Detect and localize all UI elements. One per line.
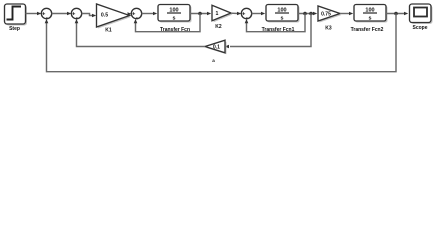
svg-text:1: 1 <box>216 11 219 17</box>
step source block Step <box>5 4 28 26</box>
wire sum1 to sum2 <box>52 12 72 16</box>
junction dot node after Transfer Fcn1 feeding inner loop <box>303 12 307 16</box>
wire sum4 to Transfer Fcn1 <box>252 12 266 16</box>
wire K1 to sum3 <box>127 12 131 16</box>
transfer function block Transfer Fcn2 100/s <box>354 5 388 23</box>
svg-text:K2: K2 <box>215 24 222 30</box>
wire inner loop Transfer Fcn1 back to sum4 <box>245 14 305 32</box>
gain block a value 0.1 pointing left <box>205 40 227 54</box>
svg-text:0.1: 0.1 <box>213 45 220 51</box>
wire gain a output back to sum2 <box>75 19 205 47</box>
junction dot node after Transfer Fcn2 feeding outer loop <box>394 12 398 16</box>
wire K2 to sum4 <box>231 12 241 16</box>
wire outer loop Transfer Fcn2 back to sum1 <box>45 14 396 72</box>
svg-text:K3: K3 <box>325 26 332 32</box>
wire Step to sum1 <box>26 12 42 16</box>
scope block Scope <box>410 4 433 24</box>
svg-text:Scope: Scope <box>412 25 427 31</box>
wire Transfer Fcn2 to Scope <box>386 12 408 16</box>
transfer function block Transfer Fcn1 100/s <box>266 5 300 23</box>
gain block K2 value 1 <box>212 5 233 22</box>
svg-text:Step: Step <box>9 26 20 32</box>
wire from node after Transfer Fcn1 down to gain a <box>225 14 311 49</box>
summing junction sum1 <box>41 8 52 21</box>
transfer function block Transfer Fcn 100/s <box>158 5 192 23</box>
svg-text:s: s <box>281 15 284 21</box>
svg-text:-: - <box>136 15 138 21</box>
wire K3 to Transfer Fcn2 <box>340 12 353 16</box>
summing junction sum2 <box>71 8 82 21</box>
summing junction sum4 <box>241 8 252 21</box>
wire sum2 to K1 with jog <box>82 14 97 18</box>
wire inner loop Transfer Fcn back to sum3 <box>134 14 200 32</box>
svg-text:0.5: 0.5 <box>101 12 108 18</box>
svg-text:Transfer Fcn2: Transfer Fcn2 <box>351 27 384 33</box>
junction dot node after Transfer Fcn1 feeding gain a loop <box>309 12 313 16</box>
svg-text:s: s <box>173 15 176 21</box>
wire Transfer Fcn1 to K3 <box>298 12 317 16</box>
svg-text:0.75: 0.75 <box>321 11 331 17</box>
svg-text:s: s <box>369 15 372 21</box>
junction dot node after Transfer Fcn <box>198 12 202 16</box>
gain block K1 value 0.5 <box>97 4 132 29</box>
gain block K3 value 0.75 <box>318 6 342 23</box>
wire Transfer Fcn to K2 <box>190 12 211 16</box>
svg-text:K1: K1 <box>105 28 112 34</box>
summing junction sum3 <box>131 8 142 21</box>
wire sum3 to Transfer Fcn <box>142 12 158 16</box>
